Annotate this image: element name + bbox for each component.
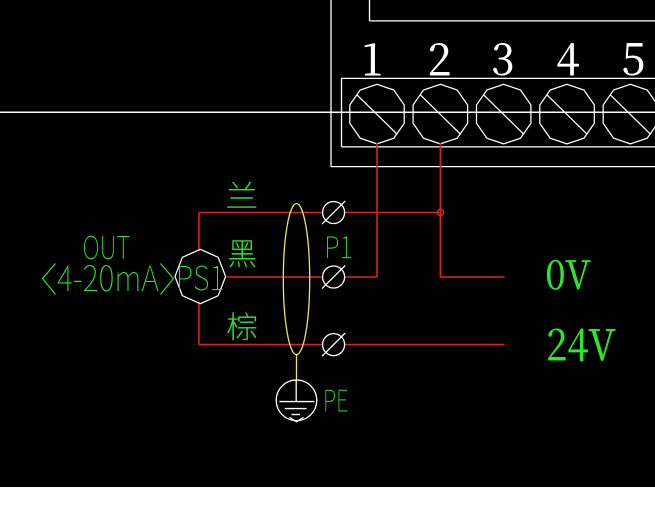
terminal point bottom (circle with slash)	[323, 334, 345, 356]
wire: brown-core wire (bottom) PS1 to terminal	[199, 344, 323, 346]
label P1	[327, 237, 351, 259]
wire: blue-core wire (top) from PS1 to shield terminal	[199, 212, 323, 214]
terminal number 5	[623, 43, 643, 75]
terminal-block outer box bottom edge	[331, 166, 655, 168]
terminal number 4	[558, 43, 579, 75]
node: junction on riser 2	[437, 209, 443, 215]
ground PE bottom point	[290, 417, 304, 422]
wire: 0V return line	[440, 276, 504, 278]
wire: riser from terminal contact 1	[376, 143, 378, 277]
ground PE stem	[295, 381, 297, 402]
wire: shield drain to PE	[296, 355, 298, 381]
terminal contact 1	[350, 84, 404, 144]
terminal contact 3	[477, 84, 531, 144]
wire: long horizontal bus line through terminal contacts	[0, 111, 655, 113]
terminal point middle (circle with slash)	[323, 266, 345, 288]
net label 24V	[548, 329, 615, 361]
enclosure outline: inner panel corner horizontal	[370, 20, 655, 22]
terminal contact 5	[603, 84, 655, 144]
label bracket right	[161, 264, 174, 295]
label black-core 黑	[230, 241, 256, 267]
label 4-20mA	[57, 265, 158, 292]
label bracket left	[43, 264, 56, 295]
wire: PS1 bottom lead vertical	[198, 303, 200, 345]
net label 0V	[547, 260, 590, 290]
wire: riser from terminal contact 2	[439, 143, 441, 277]
transmitter PS1 octagon body	[175, 249, 226, 303]
wire: PS1 top lead vertical	[198, 213, 200, 252]
ground PE bar 3	[292, 414, 301, 416]
ground PE symbol circle	[276, 380, 317, 421]
terminal number 1	[365, 43, 380, 75]
ground PE bar 2	[285, 408, 307, 410]
drawing sheet edge (white band)	[0, 487, 655, 512]
terminal point top (circle with slash)	[323, 202, 345, 224]
enclosure outline: left vertical edge of terminal-block outer box	[330, 0, 332, 167]
label blue-core 兰	[228, 182, 257, 208]
terminal number 2	[430, 43, 449, 75]
cable shield ellipse	[283, 204, 309, 355]
label PE	[325, 390, 347, 412]
terminal contact 2	[413, 84, 468, 144]
wire: top terminal to junction under contact 2	[345, 212, 441, 214]
label OUT	[84, 236, 130, 260]
wire: middle terminal to riser of contact 1	[345, 276, 377, 278]
wire: black-core wire (middle) PS1 right side to terminal	[227, 276, 323, 278]
ground PE bar 1	[279, 401, 314, 403]
terminal number 3	[493, 43, 512, 75]
wire: bottom terminal to 24V supply	[345, 344, 505, 346]
label brown-core 棕	[228, 312, 257, 340]
terminal contact 4	[540, 84, 595, 144]
label PS1	[179, 266, 223, 291]
enclosure outline: inner panel corner vertical	[369, 0, 371, 21]
terminal strip inner box	[342, 78, 655, 146]
